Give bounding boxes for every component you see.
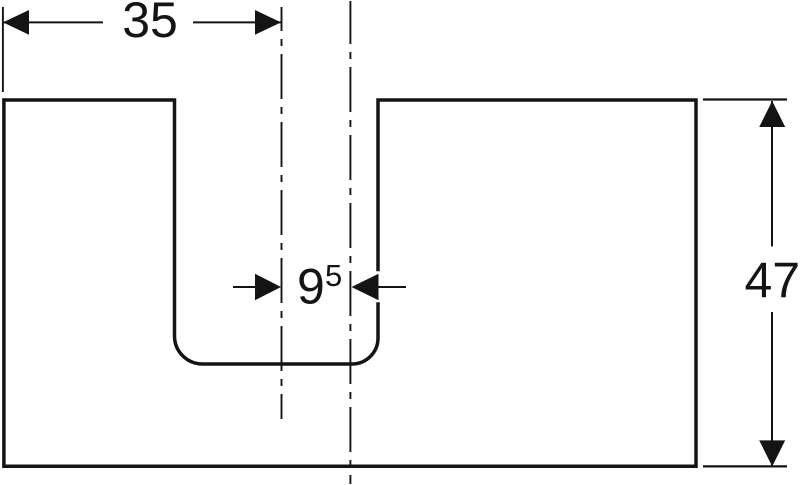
svg-text:5: 5 [325,258,342,293]
svg-text:47: 47 [744,253,800,309]
svg-text:9: 9 [297,259,325,315]
svg-text:35: 35 [122,0,178,48]
